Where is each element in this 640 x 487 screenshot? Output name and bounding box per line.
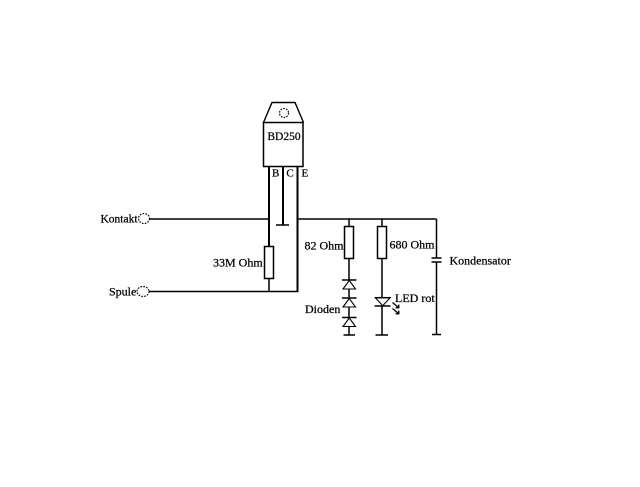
LED D4 anode bar [375,297,391,299]
wire resistor R3 to LED [381,259,383,298]
svg-text:Kondensator: Kondensator [450,254,511,268]
svg-text:Dioden: Dioden [305,302,340,316]
capacitor open terminal tick [432,334,441,336]
svg-text:Spule: Spule [109,285,136,299]
wire diode D3 to terminal [348,327,350,336]
wire resistor R2 to diode chain [348,259,350,281]
wire diode D2 to D3 [348,307,350,318]
wire LED to terminal [381,306,383,335]
svg-text:E: E [302,168,309,180]
wire Spule line to emitter leg [149,291,299,293]
wire capacitor C1 to terminal [436,262,438,335]
LED light arrow 2 [393,309,399,315]
wire rail to capacitor C1 [436,219,438,258]
wire resistor R1 bottom to Spule line [268,279,270,292]
transistor body [264,123,304,167]
capacitor C1 bottom plate [432,261,442,263]
diode chain open terminal tick [344,334,356,336]
svg-text:82 Ohm: 82 Ohm [305,239,345,253]
transistor leg C [282,167,284,226]
capacitor C1 top plate [432,257,442,259]
LED light arrow 1 [393,303,399,309]
resistor R2 82 Ohm body [345,227,354,259]
transistor mounting hole [280,109,289,118]
svg-text:680 Ohm: 680 Ohm [390,238,436,252]
LED D4 cathode bar [375,305,391,307]
wire rail to resistor R2 [348,219,350,227]
transistor Q1 BD250 package tab [264,103,304,123]
wire top rail from emitter to capacitor [298,218,437,220]
svg-text:BD250: BD250 [267,131,300,143]
LED D4 triangle [375,298,390,306]
wire rail to resistor R3 [381,219,383,227]
svg-text:Kontakt: Kontakt [101,214,139,226]
terminal Kontakt circle [139,214,150,224]
wire diode D1 to D2 [348,289,350,298]
svg-text:LED rot: LED rot [395,291,435,305]
diode D1 cathode bar [342,279,357,281]
svg-text:B: B [272,168,279,180]
diode D3 triangle [343,318,356,327]
transistor leg E [297,167,299,292]
terminal Spule circle [137,287,149,297]
leg C open terminal tick [276,224,289,226]
transistor leg B [268,167,270,247]
diode D1 triangle [343,281,356,290]
svg-text:33M Ohm: 33M Ohm [213,256,263,270]
svg-text:C: C [286,168,293,180]
resistor R1 33M Ohm body [265,247,274,279]
resistor R3 680 Ohm body [378,227,387,259]
diode D2 triangle [343,299,356,308]
diode D2 cathode bar [342,297,357,299]
wire Kontakt to base leg [150,218,271,220]
diode D3 cathode bar [342,317,357,319]
LED open terminal tick [376,334,389,336]
